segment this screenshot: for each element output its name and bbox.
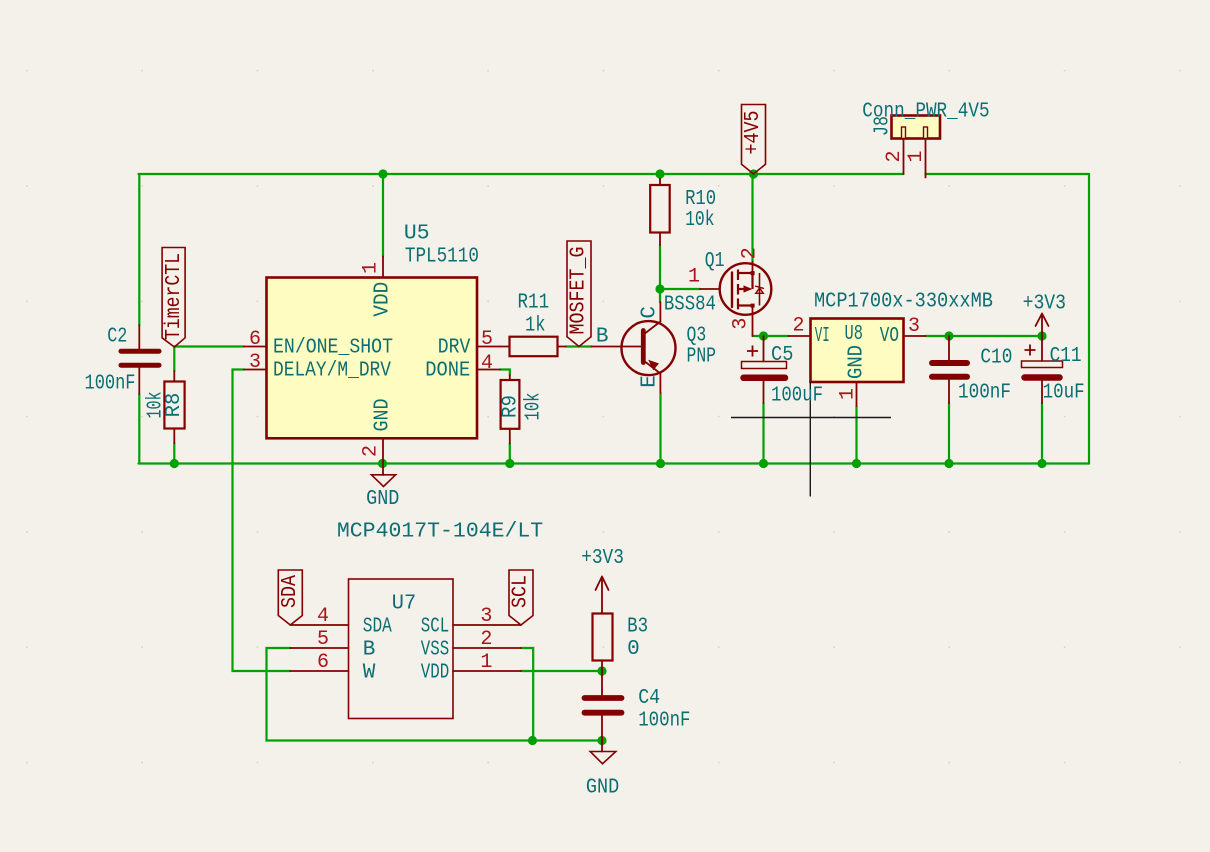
wire U7 VSS to bottom node: [521, 648, 533, 741]
resistor R9 body: [501, 380, 520, 429]
wire U7 pin B loop to bottom node: [267, 648, 602, 741]
B3 bottom lead: [601, 661, 603, 672]
svg-text:DONE: DONE: [425, 360, 470, 383]
svg-text:DRV: DRV: [438, 336, 471, 359]
global label SDA: [278, 570, 302, 625]
R11 left lead: [500, 346, 510, 348]
wire TimerCTL node down to R8: [173, 347, 175, 372]
Q1 connection square bottom: [751, 304, 755, 308]
svg-text:B: B: [363, 638, 376, 661]
Q1 body diode branch vertical: [759, 273, 761, 306]
R10 top lead: [659, 179, 661, 185]
svg-text:U5: U5: [404, 223, 430, 246]
Q1 connection square top: [751, 271, 755, 275]
svg-text:C10: C10: [980, 347, 1012, 370]
connector J8 body: [892, 116, 941, 139]
transistor Q3 PNP circle: [622, 321, 676, 375]
R8 top lead: [173, 371, 175, 382]
svg-text:Q3: Q3: [687, 325, 707, 348]
Q1 channel segment middle: [737, 284, 739, 295]
R9 top lead: [509, 375, 511, 380]
junction ground rail C5: [759, 459, 768, 468]
C5 top lead: [763, 336, 765, 362]
power symbol +4V5 (global label): [742, 105, 766, 175]
junction node top rail / U5 VDD: [378, 169, 387, 178]
capacitor C2 plate top: [121, 349, 159, 354]
U5 pin 3 DELAY/M_DRV: [244, 369, 267, 371]
Q3 collector diagonal: [646, 322, 661, 334]
svg-text:C5: C5: [771, 344, 794, 367]
wire U7 VDD to B3/C4 node: [521, 670, 602, 672]
svg-text:PNP: PNP: [687, 346, 717, 369]
U7 pin 6 W: [290, 670, 348, 672]
capacitor C10 plate bottom: [932, 374, 967, 380]
Q1 body arrow: [744, 285, 753, 292]
global label SCL: [509, 570, 533, 625]
svg-text:J8: J8: [872, 116, 895, 136]
U8 pin 1 GND: [856, 382, 858, 406]
svg-text:MOSFET_G: MOSFET_G: [568, 247, 591, 335]
svg-text:5: 5: [317, 628, 329, 651]
wire R9 bottom to ground rail: [509, 444, 511, 464]
capacitor C2 plate bottom: [121, 363, 159, 368]
svg-text:U8: U8: [845, 323, 863, 346]
Q1 pin 2 stub: [752, 262, 754, 273]
svg-text:MCP1700x-330xxMB: MCP1700x-330xxMB: [814, 291, 993, 314]
Q3 collector pin: [659, 302, 661, 322]
junction ground rail C11: [1037, 459, 1046, 468]
Q3 base pin: [592, 346, 642, 348]
regulator U8 MCP1700 body: [811, 319, 904, 383]
Q1 channel segment bottom: [737, 299, 739, 310]
svg-text:EN/ONE_SHOT: EN/ONE_SHOT: [273, 336, 393, 359]
svg-text:TimerCTL: TimerCTL: [163, 253, 186, 340]
svg-text:1: 1: [837, 388, 860, 400]
op-amp U5 TPL5110 body: [267, 278, 478, 439]
junction node C4 bottom / GND: [597, 736, 606, 745]
wire right rail: [1088, 174, 1090, 464]
J8 pin 2 slot: [902, 127, 906, 139]
wire U8 GND pin to ground rail: [855, 406, 857, 464]
svg-text:TPL5110: TPL5110: [405, 246, 479, 269]
capacitor C11 top plate (polarized outline): [1022, 361, 1063, 368]
wire left rail lower (C2 to ground rail): [138, 394, 140, 463]
svg-text:B3: B3: [627, 616, 648, 639]
ground symbol GND under C4: [601, 741, 603, 752]
cursor crosshair vertical: [809, 381, 811, 497]
wire TimerCTL node to U5 pin 6: [174, 345, 244, 347]
svg-text:4: 4: [317, 605, 329, 628]
svg-text:3: 3: [908, 315, 920, 338]
U7 pin 2 VSS: [453, 647, 521, 649]
U7 pin 3 SCL: [453, 624, 521, 626]
wire C5 bottom to ground rail: [762, 403, 764, 464]
junction ground rail U5 GND: [378, 459, 387, 468]
svg-text:VI: VI: [815, 325, 830, 348]
Q1 gate bar: [731, 273, 733, 308]
svg-text:2: 2: [739, 247, 762, 259]
svg-text:5: 5: [481, 328, 493, 351]
svg-text:10k: 10k: [685, 209, 715, 232]
J8 pin 1 lead: [925, 139, 927, 178]
svg-text:3: 3: [249, 351, 261, 374]
svg-text:E: E: [639, 375, 662, 388]
C2 top lead: [138, 325, 140, 348]
svg-text:R10: R10: [685, 188, 716, 211]
C11 plus sign: [1025, 345, 1036, 356]
U7 pin 5 B: [290, 647, 348, 649]
background grid dots: [26, 70, 1181, 763]
C5 bottom lead: [763, 381, 765, 403]
svg-text:3: 3: [480, 605, 492, 628]
U5 pin 6 EN/ONE_SHOT: [244, 346, 267, 348]
svg-text:100nF: 100nF: [85, 373, 136, 396]
svg-text:B: B: [596, 326, 609, 349]
svg-text:2: 2: [792, 315, 804, 338]
svg-text:1: 1: [359, 262, 382, 274]
resistor R8 body: [164, 382, 184, 429]
junction node C10 / VO: [944, 331, 953, 340]
global label TimerCTL: [162, 248, 185, 348]
svg-text:4: 4: [481, 352, 493, 375]
svg-text:2: 2: [360, 445, 383, 457]
C5 plus sign: [747, 346, 758, 357]
svg-text:GND: GND: [586, 777, 619, 800]
resistor R10 body: [650, 185, 670, 233]
svg-text:SCL: SCL: [421, 616, 449, 639]
wire U5 pin 3 DELAY/M_DRV to U7 pin W: [233, 370, 291, 672]
svg-text:1k: 1k: [525, 315, 546, 338]
wire bottom ground rail: [139, 462, 1090, 464]
global label MOSFET_G: [567, 241, 591, 347]
svg-text:C4: C4: [638, 687, 660, 710]
U8 pin 2 VI: [789, 335, 811, 337]
chip U7 MCP4017 body: [349, 579, 454, 719]
junction ground rail U8 GND: [852, 459, 861, 468]
capacitor C5 top plate (polarized outline): [742, 362, 787, 369]
svg-text:W: W: [363, 661, 376, 684]
svg-text:C11: C11: [1050, 345, 1082, 368]
wire gate node to Q1 gate pin: [660, 288, 700, 290]
svg-text:C: C: [639, 306, 662, 319]
C5 bottom plate: [744, 375, 786, 382]
svg-text:R9: R9: [500, 395, 523, 418]
C4 top lead: [601, 671, 603, 695]
svg-text:SDA: SDA: [363, 616, 392, 639]
svg-text:2: 2: [480, 628, 492, 651]
ground symbol GND under U5: [382, 464, 384, 476]
svg-text:+3V3: +3V3: [581, 547, 624, 570]
U8 pin 3 VO: [904, 335, 926, 337]
svg-text:1: 1: [688, 266, 700, 289]
svg-text:100uF: 100uF: [771, 385, 823, 408]
Q1 pin 3 stub: [752, 306, 754, 337]
junction node C5 / VI: [759, 331, 768, 340]
transistor Q1 BSS84 circle: [720, 263, 772, 315]
J8 pin 2 lead: [903, 139, 905, 175]
svg-text:VSS: VSS: [421, 638, 449, 661]
junction ground rail C10: [944, 459, 953, 468]
J8 pin 1 slot: [924, 127, 928, 139]
Q3 emitter arrow: [648, 360, 659, 370]
svg-text:GND: GND: [846, 345, 869, 379]
wire U5 DONE to R9: [500, 370, 510, 376]
C11 bottom plate: [1025, 374, 1060, 381]
svg-text:VDD: VDD: [372, 282, 395, 317]
svg-text:DELAY/M_DRV: DELAY/M_DRV: [273, 360, 391, 383]
U5 pin 1 VDD: [382, 257, 384, 278]
svg-text:1: 1: [905, 150, 928, 162]
Q1 body bar middle with arrow: [738, 288, 744, 290]
svg-text:0: 0: [627, 638, 640, 661]
capacitor C4 plate top: [585, 695, 622, 701]
wire C11 bottom to ground rail: [1041, 403, 1043, 464]
wire R11 to MOSFET_G / Q3 base: [566, 345, 592, 347]
svg-text:+4V5: +4V5: [742, 111, 765, 155]
Q3 emitter pin: [659, 374, 661, 394]
svg-text:2: 2: [883, 150, 906, 162]
wire gate node down to Q3 collector: [659, 289, 661, 302]
Q3 emitter diagonal: [646, 362, 661, 374]
wire Q1 pin 3 to U8 VI: [753, 335, 789, 337]
svg-text:+3V3: +3V3: [1023, 293, 1066, 316]
capacitor C4 plate bottom: [585, 710, 622, 716]
power symbol +3V3 above B3: [596, 577, 609, 614]
svg-text:GND: GND: [372, 399, 395, 432]
junction node top rail / R10: [655, 169, 664, 178]
C11 top lead: [1041, 336, 1043, 361]
junction node VSS loop / bottom wire: [528, 736, 537, 745]
C10 top lead: [948, 336, 950, 360]
cursor crosshair horizontal: [731, 417, 891, 419]
Q3 base bar: [641, 331, 646, 363]
C2 bottom lead: [138, 368, 140, 395]
svg-text:3: 3: [730, 318, 753, 330]
junction node top rail / +4V5: [749, 169, 758, 178]
C4 bottom lead: [601, 716, 603, 741]
svg-text:BSS84: BSS84: [664, 294, 716, 317]
junction node B3 / C4 / U7 VDD: [597, 666, 606, 675]
svg-text:100nF: 100nF: [958, 382, 1011, 405]
svg-text:GND: GND: [366, 488, 399, 511]
svg-text:VO: VO: [880, 325, 899, 348]
svg-text:10k: 10k: [523, 393, 546, 421]
wire U8 VO to +3V3 node: [925, 335, 1042, 337]
wire R10 to Q1 gate node: [659, 245, 661, 289]
junction ground rail Q3 emitter: [656, 459, 665, 468]
wire top rail to R10: [659, 174, 661, 179]
R10 bottom lead: [659, 233, 661, 246]
junction node Q1 gate / R10: [655, 284, 664, 293]
wire top rail right segment (GND side): [926, 173, 1090, 175]
Q1 gate pin: [700, 288, 720, 290]
svg-text:SDA: SDA: [279, 575, 302, 608]
U7 pin 1 VDD: [453, 670, 521, 672]
svg-text:1: 1: [480, 651, 492, 674]
svg-text:100nF: 100nF: [638, 710, 690, 733]
power symbol +3V3 top right: [1036, 314, 1049, 337]
svg-text:MCP4017T-104E/LT: MCP4017T-104E/LT: [337, 521, 543, 544]
wire C10 bottom to ground rail: [948, 403, 950, 464]
R9 bottom lead: [509, 429, 511, 444]
wire top power rail: [139, 173, 904, 175]
junction ground rail R8: [170, 459, 179, 468]
Q1 source bar bottom: [738, 304, 753, 306]
R11 right lead: [558, 346, 566, 348]
svg-text:6: 6: [249, 328, 261, 351]
resistor R11 body: [510, 337, 558, 357]
svg-text:C2: C2: [107, 326, 127, 349]
U5 pin 4 DONE: [477, 369, 500, 371]
resistor B3 body: [593, 614, 613, 661]
svg-text:6: 6: [317, 651, 329, 674]
wire top rail to Q1 drain pin 2: [751, 174, 753, 262]
svg-text:R11: R11: [518, 292, 550, 315]
svg-text:VDD: VDD: [421, 661, 449, 684]
svg-text:R8: R8: [163, 393, 186, 418]
svg-text:10uF: 10uF: [1043, 382, 1085, 405]
wire Q3 emitter to ground rail: [659, 393, 661, 464]
Q1 drain bar top: [738, 272, 753, 274]
Q1 body diode triangle: [756, 288, 764, 293]
C11 bottom lead: [1041, 381, 1043, 404]
svg-text:U7: U7: [392, 593, 416, 616]
svg-text:Q1: Q1: [705, 250, 725, 273]
U5 pin 2 GND: [382, 438, 384, 463]
Q1 channel segment top: [737, 270, 739, 281]
wire top rail to U5 VDD pin 1: [382, 174, 384, 257]
junction node C11 / +3V3: [1037, 331, 1046, 340]
wire R8 bottom to ground rail: [173, 443, 175, 464]
U5 pin 5 DRV: [477, 346, 500, 348]
Q1 source-body vertical link: [751, 273, 753, 289]
C10 bottom lead: [948, 380, 950, 403]
junction ground rail R9: [505, 459, 514, 468]
wire left rail upper (to C2): [138, 174, 140, 325]
svg-text:SCL: SCL: [510, 575, 533, 608]
Q1 body diode cathode bar: [755, 286, 764, 289]
U7 pin 4 SDA: [290, 624, 348, 626]
capacitor C10 plate top: [932, 360, 967, 366]
R8 bottom lead: [173, 429, 175, 444]
